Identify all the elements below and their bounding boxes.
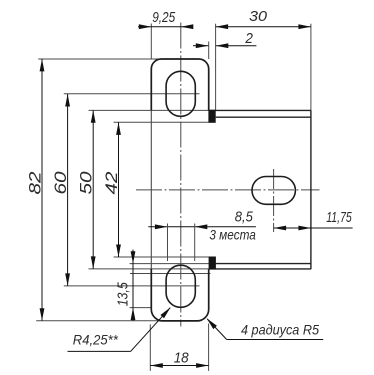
dimension 30 line (216, 26, 311, 28)
svg-text:82: 82 (26, 171, 45, 195)
leader R4,25 (68, 350, 131, 352)
center line horizontal right slot y189.9 (136, 189, 320, 191)
center line vertical slots x180.8 (180, 23, 182, 327)
dimension 9,25 line (138, 26, 192, 28)
leader 4 radii R5 (227, 339, 324, 341)
extension line bottom plate top y263.6 (130, 263, 210, 265)
dimension 42 line (118, 122, 120, 257)
extension line top slot center y93.8 (64, 93, 200, 95)
dimension 2 line (193, 45, 208, 47)
top plate edge-on top line (209, 109, 311, 111)
dimension 82 line (41, 59, 43, 321)
top tab outline (151, 59, 208, 110)
svg-text:9,25: 9,25 (152, 9, 176, 26)
svg-text:2: 2 (244, 30, 253, 47)
extension line right edge x310.9 (310, 24, 312, 111)
extension line 18 left x150.3 (149, 324, 151, 371)
extension line bottom slot center y285.9 (64, 285, 200, 287)
svg-text:4 радиуса R5: 4 радиуса R5 (241, 322, 319, 338)
extension line plate top y110.4 (89, 109, 210, 111)
svg-text:18: 18 (174, 350, 190, 367)
extension line slot left x166.5 (167, 224, 169, 262)
extension line part top y59 (38, 58, 162, 60)
extension line plate bottom y268.9 (89, 268, 210, 270)
svg-text:42: 42 (102, 171, 121, 195)
extension line tab left x151.3 top (150, 24, 152, 60)
extension line 42 bottom y257 (114, 256, 210, 258)
svg-text:60: 60 (51, 171, 70, 195)
bottom oblong slot (166, 265, 195, 307)
dimension 8,5 line (148, 226, 256, 228)
weld seam bottom (black square) (209, 257, 216, 270)
dimension 60 line (67, 94, 69, 286)
svg-text:50: 50 (77, 171, 96, 195)
bottom tab outline (151, 269, 208, 321)
svg-text:3 места: 3 места (209, 227, 256, 243)
dimension 50 line (92, 110, 94, 269)
top oblong slot (166, 71, 195, 116)
svg-text:R4,25**: R4,25** (73, 332, 119, 348)
extension line part bottom y320.8 (36, 320, 164, 322)
extension line y273.5 (130, 273, 210, 275)
top plate edge-on bottom line (216, 116, 311, 118)
center line vertical right slot x273.6 (273, 169, 275, 232)
extension line 13,5 bottom y307.6 (130, 307, 152, 309)
svg-text:8,5: 8,5 (235, 208, 254, 225)
right edge of plate (310, 110, 312, 269)
svg-text:30: 30 (249, 8, 268, 25)
svg-text:13,5: 13,5 (115, 282, 132, 307)
dimension 11,75 line (274, 227, 353, 229)
extension line 42 top y122.3 (114, 121, 209, 123)
bottom plate edge-on top line (216, 263, 311, 265)
weld seam top (black square) (208, 110, 215, 123)
extension line slot right x195.2 (194, 224, 196, 262)
extension line tab right x208.7 top (208, 42, 210, 60)
right oblong slot (252, 177, 295, 205)
dimension 13,5 line (132, 250, 134, 321)
svg-text:11,75: 11,75 (326, 209, 352, 226)
extension line web right x215.6 (215, 24, 217, 111)
dimension 18 line (150, 365, 208, 367)
bottom plate edge-on bottom line (209, 268, 311, 270)
extension line 18 right x208.6 (208, 324, 210, 371)
hidden bar left edge x151.3 (150, 110, 152, 269)
